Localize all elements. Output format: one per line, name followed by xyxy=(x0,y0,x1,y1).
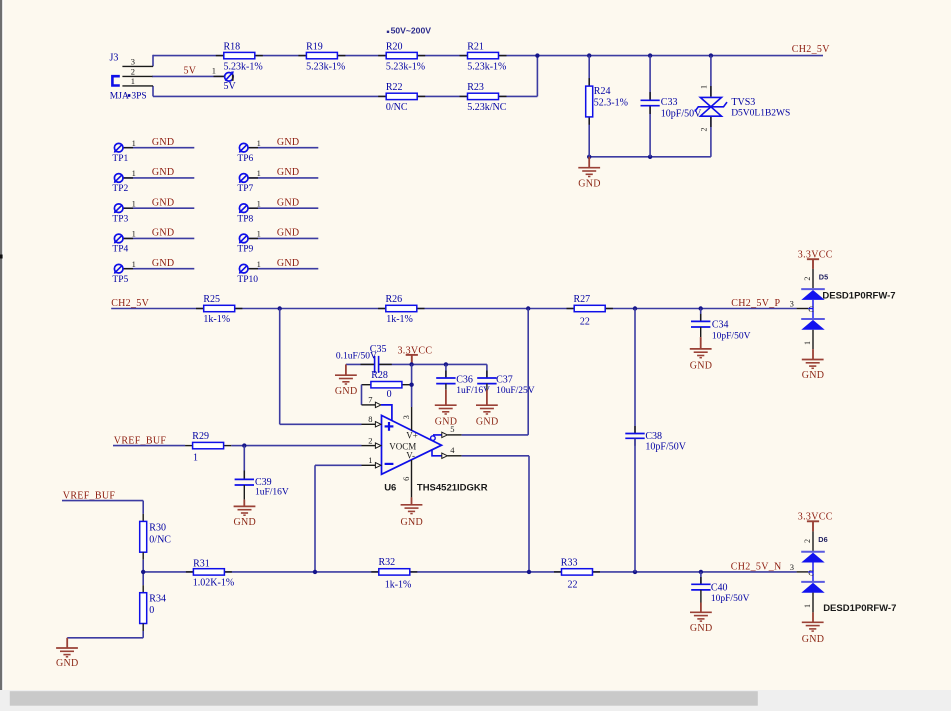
svg-text:10pF/50V: 10pF/50V xyxy=(645,442,686,453)
test point TP7 xyxy=(248,177,318,179)
test point TP2 xyxy=(123,177,194,179)
junction GND bus / C33 xyxy=(648,155,652,159)
capacitor C37 xyxy=(486,371,488,378)
svg-text:1: 1 xyxy=(132,168,136,178)
wire J3 pin3 riser xyxy=(152,55,154,67)
capacitor C39 xyxy=(243,446,245,480)
svg-text:1: 1 xyxy=(132,138,136,148)
svg-text:10pF/50V: 10pF/50V xyxy=(712,332,751,342)
ground under C37 xyxy=(476,404,498,406)
svg-text:CH2_5V: CH2_5V xyxy=(792,44,830,55)
diode D5 bottom half xyxy=(801,318,825,320)
svg-text:C40: C40 xyxy=(711,582,728,593)
resistor R23 xyxy=(460,95,468,97)
svg-text:R21: R21 xyxy=(467,41,484,52)
svg-text:GND: GND xyxy=(152,258,175,269)
capacitor C35 xyxy=(374,356,376,373)
svg-text:5V: 5V xyxy=(184,66,197,77)
ground under C39 xyxy=(234,505,256,507)
junction R29 / C39 xyxy=(242,443,246,447)
svg-text:DESD1P0RFW-7: DESD1P0RFW-7 xyxy=(822,290,895,301)
junction row A / C38 xyxy=(633,306,637,310)
svg-text:CH2_5V: CH2_5V xyxy=(111,298,149,309)
svg-text:1: 1 xyxy=(700,85,709,89)
diode D6 pin 3 xyxy=(797,571,809,573)
label -50V~200V xyxy=(387,31,389,33)
svg-text:V+: V+ xyxy=(406,430,418,440)
test point TP3 xyxy=(123,207,194,209)
wire VREF_BUF to R29 xyxy=(113,445,185,447)
test point 5V xyxy=(214,75,225,77)
svg-text:R31: R31 xyxy=(193,558,210,569)
junction row A / pin8 riser xyxy=(278,306,282,310)
wire pin8 riser and lead xyxy=(279,309,281,425)
svg-text:2: 2 xyxy=(803,277,812,281)
svg-text:D5: D5 xyxy=(819,272,828,281)
svg-text:R34: R34 xyxy=(149,593,166,604)
svg-text:1: 1 xyxy=(803,604,812,608)
wire VREF_BUF lower xyxy=(62,500,143,502)
svg-text:R24: R24 xyxy=(594,86,611,97)
svg-text:GND: GND xyxy=(690,623,713,634)
svg-text:TVS3: TVS3 xyxy=(731,97,755,108)
svg-text:V-: V- xyxy=(406,451,415,461)
test point TP4 xyxy=(123,237,194,239)
resistor R22 xyxy=(378,95,386,97)
ground under C34 xyxy=(690,348,712,350)
wire row B xyxy=(143,571,796,573)
ground under C40 xyxy=(690,611,712,613)
svg-text:3: 3 xyxy=(790,299,794,309)
svg-text:0/NC: 0/NC xyxy=(149,535,171,546)
wire pin1 riser and lead xyxy=(314,465,316,572)
U6 pin 4 xyxy=(432,450,442,456)
junction row B / R30 R34 xyxy=(141,570,145,574)
svg-text:R19: R19 xyxy=(306,41,323,52)
U6 pin 3 lead xyxy=(411,407,413,431)
svg-text:GND: GND xyxy=(277,137,300,148)
junction top rail / C33 xyxy=(648,53,652,57)
wire GND bus under R24/C33/TVS3 xyxy=(589,156,711,158)
U6 pin 6 lead xyxy=(411,460,413,498)
wire pin2 lead xyxy=(244,445,361,447)
capacitor C33 xyxy=(649,56,651,101)
svg-text:TP10: TP10 xyxy=(237,275,258,285)
U6 pin 8 xyxy=(362,423,376,425)
wire R29 to junction xyxy=(231,445,244,447)
svg-text:R32: R32 xyxy=(379,557,396,568)
svg-text:5V: 5V xyxy=(224,81,237,92)
svg-text:1uF/16V: 1uF/16V xyxy=(456,386,490,396)
resistor R25 xyxy=(196,308,204,310)
svg-text:GND: GND xyxy=(578,178,601,189)
svg-text:TP9: TP9 xyxy=(237,245,253,255)
svg-text:7: 7 xyxy=(368,395,372,405)
svg-text:CH2_5V_P: CH2_5V_P xyxy=(731,298,780,309)
svg-text:GND: GND xyxy=(690,360,713,371)
capacitor C34 xyxy=(700,309,702,322)
svg-text:C39: C39 xyxy=(255,477,272,488)
svg-text:GND: GND xyxy=(401,517,424,528)
svg-text:4: 4 xyxy=(450,445,455,455)
svg-text:C33: C33 xyxy=(661,97,678,108)
horizontal scrollbar xyxy=(0,690,951,711)
test point TP6 xyxy=(248,147,318,149)
U6 pin 2 xyxy=(362,445,376,447)
diode D5 top half xyxy=(801,288,825,290)
svg-text:1: 1 xyxy=(132,229,136,239)
svg-text:6: 6 xyxy=(401,477,411,481)
ground under D5 xyxy=(812,349,814,359)
svg-text:TP2: TP2 xyxy=(112,184,128,194)
svg-text:1: 1 xyxy=(257,138,261,148)
svg-text:1: 1 xyxy=(193,452,198,463)
resistor R32 xyxy=(371,571,379,573)
U6 pin 5 xyxy=(434,435,442,437)
svg-text:1k-1%: 1k-1% xyxy=(386,314,413,325)
svg-text:52.3-1%: 52.3-1% xyxy=(594,98,628,109)
svg-text:TP7: TP7 xyxy=(237,184,253,194)
junction rail / C36 xyxy=(444,362,448,366)
svg-text:TP8: TP8 xyxy=(237,214,253,224)
svg-text:GND: GND xyxy=(152,228,175,239)
svg-text:0: 0 xyxy=(387,389,392,400)
wire riser R23 to top rail xyxy=(536,56,538,97)
wire 5V net xyxy=(152,75,225,77)
svg-text:GND: GND xyxy=(277,228,300,239)
wire pin3 vertical (V+ supply) xyxy=(411,364,413,407)
diode D6 bottom half xyxy=(801,581,825,583)
svg-text:R28: R28 xyxy=(371,370,388,381)
svg-text:C34: C34 xyxy=(712,320,729,331)
capacitor C38 xyxy=(634,309,636,434)
resistor R21 xyxy=(460,55,468,57)
TVS diode TVS3 xyxy=(710,56,712,97)
resistor R30 xyxy=(142,514,144,522)
svg-text:VREF_BUF: VREF_BUF xyxy=(63,490,116,501)
op-amp U6 triangle xyxy=(382,415,442,474)
J3 pin 3 xyxy=(122,65,153,67)
junction row B / pin1 riser xyxy=(313,570,317,574)
test point TP1 xyxy=(123,147,194,149)
svg-text:8: 8 xyxy=(368,414,372,424)
test point TP10 xyxy=(248,268,318,270)
wire 3.3VCC rail xyxy=(346,363,374,365)
svg-text:1uF/16V: 1uF/16V xyxy=(255,488,289,498)
svg-text:GND: GND xyxy=(56,658,79,669)
svg-text:R23: R23 xyxy=(467,82,484,93)
ground bottom left xyxy=(66,638,68,648)
svg-text:1: 1 xyxy=(132,198,136,208)
ground under C36 xyxy=(435,404,457,406)
diode D5 pin 3 xyxy=(797,308,809,310)
ground under U6 xyxy=(411,497,413,504)
svg-text:J3: J3 xyxy=(110,52,119,63)
junction GND bus / R24 xyxy=(587,155,591,159)
junction row A / C34 xyxy=(699,306,703,310)
ground under D6 xyxy=(812,612,814,622)
svg-text:GND: GND xyxy=(152,137,175,148)
capacitor C40 xyxy=(700,572,702,584)
diode D6 pin 1 lead xyxy=(812,593,814,613)
wire CH2_5V top rail xyxy=(153,55,823,57)
svg-text:GND: GND xyxy=(277,167,300,178)
svg-text:2: 2 xyxy=(131,66,135,76)
diode D6 pin 2 lead xyxy=(812,531,814,551)
svg-text:R22: R22 xyxy=(386,82,403,93)
svg-text:3: 3 xyxy=(790,562,794,572)
svg-text:C38: C38 xyxy=(645,431,662,442)
diode D5 pin 1 lead xyxy=(812,330,814,349)
svg-text:C37: C37 xyxy=(496,374,513,385)
svg-text:1: 1 xyxy=(131,76,135,86)
svg-text:1: 1 xyxy=(368,455,372,465)
svg-text:TP4: TP4 xyxy=(112,245,128,255)
svg-text:R33: R33 xyxy=(561,557,578,568)
junction row A / pin5 riser xyxy=(526,306,530,310)
svg-text:VREF_BUF: VREF_BUF xyxy=(114,435,167,446)
svg-text:GND: GND xyxy=(802,370,825,381)
svg-text:0/NC: 0/NC xyxy=(386,102,408,113)
junction rail / 3.3VCC xyxy=(409,362,413,366)
svg-text:GND: GND xyxy=(335,386,358,397)
junction row B / C40 xyxy=(699,570,703,574)
svg-text:D6: D6 xyxy=(818,535,827,544)
junction top rail / R24 xyxy=(587,53,591,57)
svg-text:R20: R20 xyxy=(386,41,403,52)
test point TP9 xyxy=(248,237,318,239)
svg-text:1: 1 xyxy=(803,341,812,345)
resistor R20 xyxy=(378,55,386,57)
junction top rail / TVS3 xyxy=(709,53,713,57)
wire rail to C37 corner xyxy=(486,364,488,370)
svg-text:C36: C36 xyxy=(456,374,473,385)
svg-text:5.23k-1%: 5.23k-1% xyxy=(467,61,506,72)
resistor R18 xyxy=(216,55,224,57)
svg-text:THS4521IDGKR: THS4521IDGKR xyxy=(417,482,488,493)
J3 pin 2 xyxy=(122,75,152,77)
svg-text:2: 2 xyxy=(803,539,812,543)
svg-text:R30: R30 xyxy=(149,523,166,534)
svg-text:1k-1%: 1k-1% xyxy=(203,314,230,325)
svg-text:D5V0L1B2WS: D5V0L1B2WS xyxy=(731,109,790,119)
resistor R33 xyxy=(554,571,562,573)
wire R28 left elbow to pin7 xyxy=(361,385,363,405)
diode D5 pin 2 lead xyxy=(812,269,814,288)
svg-text:22: 22 xyxy=(568,580,578,591)
svg-text:1: 1 xyxy=(257,229,261,239)
svg-text:5: 5 xyxy=(450,424,454,434)
svg-text:3PS: 3PS xyxy=(131,91,146,101)
diode D5 middle link xyxy=(812,300,814,319)
svg-text:R26: R26 xyxy=(386,294,403,305)
svg-text:1k-1%: 1k-1% xyxy=(385,580,412,591)
svg-text:3: 3 xyxy=(401,415,411,419)
svg-text:GND: GND xyxy=(234,517,257,528)
svg-text:3: 3 xyxy=(131,57,135,67)
svg-text:1: 1 xyxy=(257,198,261,208)
resistor R26 xyxy=(378,308,386,310)
capacitor C36 xyxy=(445,364,447,378)
svg-text:DESD1P0RFW-7: DESD1P0RFW-7 xyxy=(823,603,896,614)
svg-text:GND: GND xyxy=(277,197,300,208)
connector J3 xyxy=(112,76,119,85)
ground under R24 bus xyxy=(588,157,590,168)
test point TP8 xyxy=(248,207,318,209)
junction row B / C38 xyxy=(633,570,637,574)
junction row B / pin4 riser xyxy=(527,570,531,574)
svg-text:R27: R27 xyxy=(574,294,591,305)
junction R28 / pin3 xyxy=(409,383,413,387)
svg-text:TP3: TP3 xyxy=(112,214,128,224)
svg-text:TP5: TP5 xyxy=(112,275,128,285)
U6 pin 7 xyxy=(362,404,376,406)
svg-text:0.1uF/50V: 0.1uF/50V xyxy=(336,352,377,362)
svg-text:2: 2 xyxy=(368,435,372,445)
junction top rail / R23 riser xyxy=(535,53,539,57)
svg-text:TP1: TP1 xyxy=(112,154,128,164)
wire row A xyxy=(111,308,796,310)
svg-text:5.23k-1%: 5.23k-1% xyxy=(386,61,425,72)
resistor R28 xyxy=(362,384,371,386)
svg-text:1: 1 xyxy=(257,259,261,269)
resistor R31 xyxy=(186,571,194,573)
svg-text:R29: R29 xyxy=(192,431,209,442)
wire pin5 to row A riser xyxy=(462,434,529,436)
svg-text:GND: GND xyxy=(802,634,825,645)
svg-text:5.23k-1%: 5.23k-1% xyxy=(224,61,263,72)
svg-text:GND: GND xyxy=(476,417,499,428)
wire J3 pin1 to lower bus xyxy=(152,86,154,97)
svg-text:22: 22 xyxy=(580,317,590,328)
svg-text:1: 1 xyxy=(257,168,261,178)
svg-text:0: 0 xyxy=(149,605,154,616)
svg-text:1: 1 xyxy=(132,259,136,269)
svg-text:10pF/50V: 10pF/50V xyxy=(711,594,750,604)
svg-text:2: 2 xyxy=(700,128,709,132)
resistor R29 xyxy=(185,445,193,447)
svg-text:50V~200V: 50V~200V xyxy=(391,25,432,35)
svg-text:R18: R18 xyxy=(224,41,241,52)
svg-text:TP6: TP6 xyxy=(237,154,253,164)
svg-text:U6: U6 xyxy=(384,482,396,493)
test point TP5 xyxy=(123,268,194,270)
diode D6 top half xyxy=(801,551,825,553)
svg-text:MJA: MJA xyxy=(110,91,129,101)
resistor R34 xyxy=(142,572,144,585)
U6 output bubble xyxy=(431,436,436,441)
svg-text:CH2_5V_N: CH2_5V_N xyxy=(731,562,782,573)
ground left of C35 xyxy=(345,364,347,375)
svg-text:1.02K-1%: 1.02K-1% xyxy=(193,577,234,588)
svg-text:1: 1 xyxy=(212,66,216,76)
svg-text:GND: GND xyxy=(152,167,175,178)
resistor R27 xyxy=(567,308,575,310)
svg-text:R25: R25 xyxy=(203,294,220,305)
svg-text:GND: GND xyxy=(277,258,300,269)
svg-text:GND: GND xyxy=(152,197,175,208)
diode D6 middle link xyxy=(812,563,814,582)
window left border xyxy=(0,0,2,690)
wire pin4 to row B riser xyxy=(462,455,529,457)
svg-text:5.23k-1%: 5.23k-1% xyxy=(306,61,345,72)
svg-text:5.23k/NC: 5.23k/NC xyxy=(467,102,507,113)
resistor R19 xyxy=(298,55,306,57)
resistor R24 xyxy=(588,56,590,87)
J3 pin 1 xyxy=(122,85,153,87)
U6 pin 1 xyxy=(362,464,376,466)
